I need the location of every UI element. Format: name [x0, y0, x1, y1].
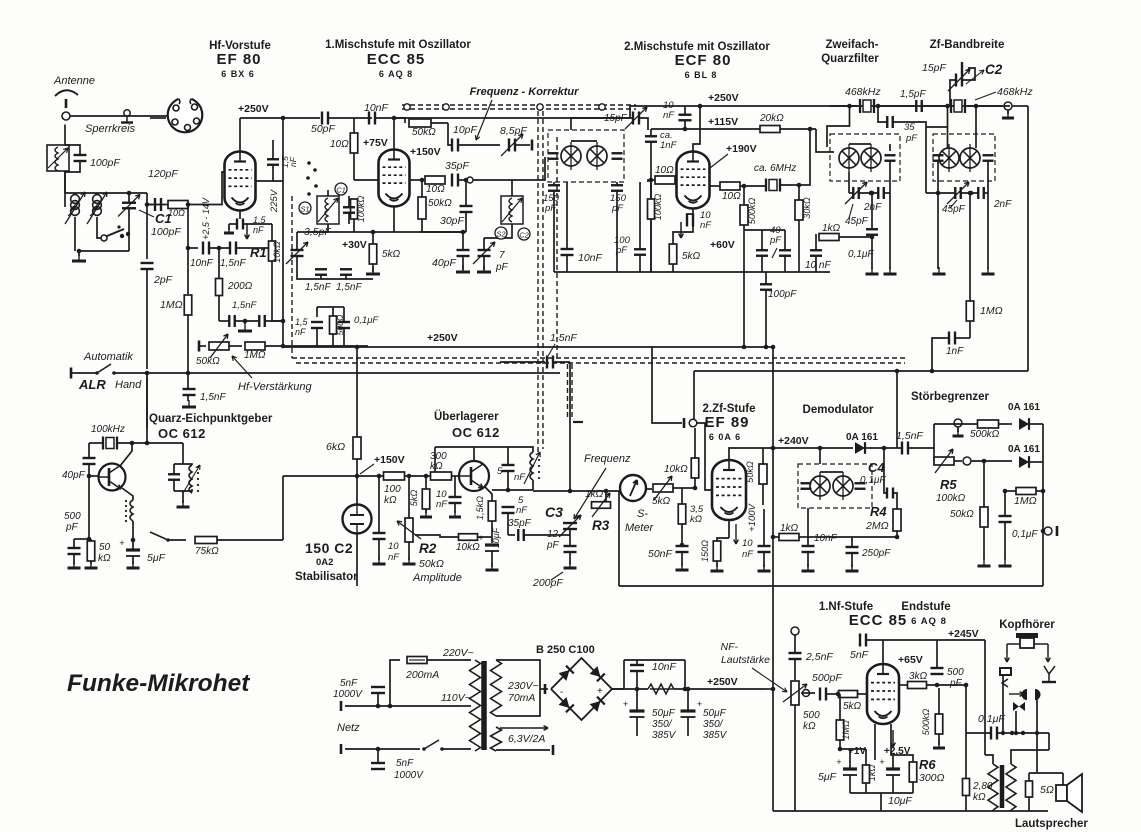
wire 5ohm up — [1028, 773, 1030, 781]
variable capacitor 45pF right — [947, 182, 969, 204]
tube 150C2 stabilizer (V4) — [343, 505, 372, 534]
qf2 coil A — [939, 144, 959, 172]
svg-text:385V: 385V — [652, 730, 677, 741]
shield box bottom edge — [292, 357, 905, 359]
tube ECF80 (V3) — [677, 152, 710, 209]
wire AGC long line2 — [540, 346, 773, 348]
label B 250 C100 — [536, 644, 595, 656]
wire mix out right2 — [473, 157, 545, 180]
resistor 5 Ohm — [1026, 781, 1033, 797]
wire term gnd — [1007, 110, 1009, 114]
wire C3 feed — [569, 362, 571, 491]
capacitor 1,5pF — [916, 100, 922, 112]
capacitor 1,5nF cathode — [230, 242, 236, 255]
capacitor C4 0,1uF — [887, 488, 893, 499]
wire collector up — [120, 443, 132, 466]
wire pot dn — [794, 705, 796, 811]
wire 150pF left — [553, 182, 555, 185]
tube ECC85 triode1 (V2a) — [379, 150, 410, 207]
wire 40pF oc612 top — [88, 443, 90, 458]
node tuned gnd — [77, 249, 82, 254]
terminal heater — [552, 745, 555, 755]
svg-text:S-: S- — [637, 508, 648, 520]
label 100pF mixer b — [615, 245, 628, 256]
svg-text:1MΩ: 1MΩ — [1014, 495, 1037, 507]
label 0,1uF nf — [978, 713, 1005, 725]
label 300k b — [430, 461, 443, 472]
node R4 — [895, 535, 900, 540]
ground R2 — [403, 557, 416, 564]
label 100k ECF — [653, 194, 663, 221]
label 3,5k a — [690, 504, 704, 515]
svg-text:+75V: +75V — [363, 137, 388, 149]
wire C1 top link — [97, 192, 147, 194]
capacitor 0,1uF nf — [991, 727, 997, 740]
capacitor 0,1uF stoer — [999, 516, 1012, 522]
wire screen cap down — [316, 328, 318, 346]
svg-text:30pF: 30pF — [440, 215, 465, 227]
wire qf2 gnd1 — [937, 193, 939, 269]
label +60V — [710, 239, 735, 251]
label Zf-Bandbreite — [930, 39, 1005, 51]
wire 150pF leftb — [553, 191, 555, 272]
wire 01uF screen b — [343, 328, 345, 346]
wire 40pF ecf2 — [761, 256, 763, 272]
label 500pF a — [64, 511, 81, 522]
svg-text:Endstufe: Endstufe — [901, 601, 950, 613]
svg-text:300Ω: 300Ω — [919, 772, 945, 784]
label 100kHz — [91, 424, 125, 435]
label 30k — [802, 197, 812, 219]
wire psu top entry — [345, 705, 460, 707]
wire socket to EF80 plate top — [150, 117, 166, 119]
svg-text:1nF: 1nF — [660, 140, 678, 151]
mechanical linkage lower — [402, 108, 636, 110]
wire left vertical from C1 — [146, 205, 148, 260]
svg-text:75kΩ: 75kΩ — [195, 546, 219, 557]
svg-text:2nF: 2nF — [993, 199, 1012, 210]
ground 50k stoer — [978, 559, 991, 566]
arrow C2 — [966, 70, 984, 84]
node open circle mix — [467, 177, 473, 183]
wire screen net top — [317, 306, 333, 308]
node collector quartz — [130, 441, 135, 446]
capacitor 1,5nF ALR — [183, 389, 196, 395]
svg-text:0A 161: 0A 161 — [846, 432, 878, 443]
label C3 — [545, 504, 563, 520]
wire 50uF b — [687, 689, 689, 711]
wire coupling mid — [500, 361, 545, 363]
variable capacitor 8,5pF — [501, 134, 523, 156]
label 0A2 — [316, 557, 333, 568]
crystal ca 6MHz — [766, 179, 780, 192]
wire crystal right — [781, 129, 810, 185]
svg-text:kΩ: kΩ — [803, 721, 816, 732]
wire 1k ecf right — [839, 236, 872, 238]
wire 5k top — [372, 232, 374, 244]
label 10nF ef89 b — [742, 549, 754, 560]
label EF 89 — [704, 414, 749, 431]
label Kopfhoerer — [999, 619, 1055, 631]
label 10nF bus2 — [364, 102, 389, 114]
label 30pF — [440, 215, 465, 227]
wire cathode gnd stem — [228, 224, 230, 230]
label 15pF IF1 — [604, 113, 628, 124]
label R3 — [592, 518, 610, 533]
wire AGC terminal — [199, 345, 206, 347]
label Endstufe — [901, 601, 950, 613]
wire R4 row — [815, 536, 897, 538]
label 0A161 st1 — [1008, 402, 1040, 413]
label 1k R3 — [585, 489, 604, 500]
wire corner x283 — [282, 476, 284, 540]
terminal 8,5pF — [531, 140, 534, 151]
node psu c — [686, 687, 691, 692]
label 10nF psu — [652, 661, 677, 673]
svg-text:0,1μF: 0,1μF — [354, 315, 379, 326]
svg-text:5kΩ: 5kΩ — [382, 249, 401, 260]
wire cathode row — [188, 247, 198, 249]
wire NF out — [1043, 530, 1044, 532]
svg-text:ECC 85: ECC 85 — [367, 51, 426, 68]
label +240V — [778, 435, 809, 447]
wire 40pF ecf3 — [784, 230, 786, 250]
label 120pF — [148, 168, 178, 180]
resistor 1M AGC — [245, 342, 265, 350]
label R4 — [870, 504, 887, 519]
node NF out — [1041, 529, 1046, 534]
svg-text:500kΩ: 500kΩ — [747, 198, 757, 225]
wire 150pF rightb — [616, 191, 618, 272]
wire 10pF right — [458, 144, 500, 146]
capacitor 1nF agc — [949, 332, 955, 345]
wire 10nF stab b — [378, 539, 380, 560]
resistor 30k — [795, 200, 803, 220]
wire 50k stoer dn — [983, 527, 985, 560]
label 15pF C2 — [922, 62, 947, 74]
wire psu bottom entry — [345, 748, 420, 750]
node 01uF qf — [870, 191, 875, 196]
wire 10k up — [694, 428, 696, 458]
wire 100kHz right — [118, 442, 183, 444]
label 10nF ueb a — [436, 489, 447, 500]
node 5k ueb — [424, 474, 429, 479]
linkage down to osc coil b — [542, 111, 544, 449]
label R1 — [250, 245, 267, 260]
label 7pF b — [495, 262, 509, 273]
wire 5k ueb b — [425, 509, 427, 513]
wire bus jog — [630, 106, 697, 118]
wire ALR lead — [71, 372, 97, 374]
svg-text:200Ω: 200Ω — [227, 281, 253, 292]
svg-text:10Ω: 10Ω — [426, 184, 445, 195]
wire 1M agc up — [969, 193, 971, 301]
wire emitter ueb — [485, 487, 492, 501]
label 150pF left a — [543, 193, 560, 204]
resistor 50k stoer — [980, 507, 988, 527]
wire 245V rail — [883, 639, 985, 641]
label Hf-Vorstufe — [209, 40, 271, 52]
resistor 1M agc right — [966, 301, 974, 321]
capacitor 2pF — [141, 263, 154, 269]
wire 50k stoer — [983, 461, 985, 507]
wire 50nF down — [681, 552, 683, 566]
arrow EF89 cathode — [734, 524, 739, 544]
svg-text:3kΩ: 3kΩ — [909, 671, 928, 682]
svg-text:2MΩ: 2MΩ — [865, 520, 889, 532]
wire bias conn2 — [849, 749, 851, 769]
svg-text:+: + — [478, 533, 483, 543]
wire qf row right b — [961, 192, 978, 194]
node 10nF stab — [377, 474, 382, 479]
label 10nF ecf b — [700, 220, 712, 231]
node 240V — [771, 446, 776, 451]
svg-text:1,5nF: 1,5nF — [232, 300, 257, 311]
wire 1,5nF anode top — [272, 140, 274, 159]
svg-text:385V: 385V — [703, 730, 728, 741]
label 10nF ecf a — [700, 210, 711, 221]
resistor R1 10k — [269, 241, 276, 261]
resistor 200 Ohm — [216, 279, 223, 296]
wire ueb coil top — [530, 447, 533, 452]
ground 10nF demod — [802, 564, 815, 571]
wire 200pF down — [569, 552, 571, 564]
capacitor 10nF ueb — [449, 497, 462, 503]
wire bias row2 — [235, 320, 259, 322]
label 2nF left — [863, 202, 882, 213]
svg-text:5Ω: 5Ω — [1040, 784, 1054, 796]
label 50k HF — [196, 356, 220, 367]
wire pot to 1M — [229, 345, 242, 347]
label 1,5nF anode — [280, 156, 290, 168]
wire crystal2 out — [967, 105, 1002, 107]
label 1k nf — [867, 765, 877, 782]
linkage coupler 3 — [537, 104, 543, 110]
node C1 top — [127, 191, 132, 196]
capacitor 10uF nf — [879, 757, 900, 775]
resistor 75k — [195, 537, 217, 544]
svg-text:ECC 85: ECC 85 — [849, 612, 908, 629]
svg-text:12: 12 — [547, 529, 559, 540]
label 100k stab b — [384, 495, 397, 506]
wire emitter to coil — [122, 488, 133, 500]
label C1 100pF — [151, 226, 181, 238]
svg-text:Funke-Mikrohet: Funke-Mikrohet — [67, 670, 250, 697]
wire 1k demod l — [773, 536, 779, 538]
wire EF80 anode out — [255, 180, 283, 182]
wire IF1 trim — [571, 118, 632, 130]
svg-text:OC 612: OC 612 — [452, 425, 500, 440]
label 10nF ef89 a — [742, 538, 753, 549]
svg-text:15pF: 15pF — [922, 62, 947, 74]
svg-text:1kΩ: 1kΩ — [780, 523, 799, 534]
wire 3k l — [899, 684, 908, 686]
wire 35pF ueb left — [508, 534, 515, 536]
wire grid node — [147, 193, 188, 205]
svg-text:5μF: 5μF — [147, 552, 166, 564]
svg-text:Automatik: Automatik — [83, 351, 133, 363]
svg-text:10 nF: 10 nF — [805, 260, 831, 271]
svg-text:nF: nF — [663, 110, 675, 121]
wire 50k grid2 down — [422, 219, 466, 232]
wire bridge in — [540, 688, 548, 690]
capacitor qf2 left — [933, 155, 944, 161]
variable capacitor C2 15pF — [948, 69, 970, 91]
label +245V — [948, 628, 979, 640]
wire 1M stoer l — [1005, 490, 1016, 492]
label S-Meter a — [637, 508, 648, 520]
node 10k meter — [693, 486, 698, 491]
ground ueb — [486, 563, 499, 570]
wire 200ohm bottom — [218, 296, 220, 321]
wire qf row left a — [849, 192, 853, 194]
label OC 612 quarz — [158, 426, 206, 441]
svg-text:40pF: 40pF — [62, 470, 86, 481]
label 150 C2 — [305, 540, 353, 556]
wire nf gnd row — [850, 792, 913, 794]
headphone jack socket — [1016, 633, 1038, 648]
IF1 secondary coil — [587, 142, 607, 170]
loudspeaker — [1056, 774, 1082, 812]
node demod out — [882, 446, 887, 451]
wire 245V dn — [984, 640, 986, 755]
wire coil to node — [132, 521, 134, 540]
wire speaker feed — [1042, 580, 1044, 586]
label +1V — [848, 746, 866, 757]
capacitor 2,5nF — [789, 653, 802, 659]
wire ECC85 cathode — [393, 207, 395, 233]
svg-text:10Ω: 10Ω — [168, 208, 185, 218]
label 0A161 demod — [846, 432, 878, 443]
wire 300k right — [452, 475, 460, 477]
label 5nF PSU b — [333, 689, 363, 700]
label 50uF b2 — [703, 719, 724, 730]
wire stoer t1 — [957, 427, 959, 432]
svg-text:Zf-Bandbreite: Zf-Bandbreite — [930, 39, 1005, 51]
wire 500k down — [743, 225, 745, 347]
wire 10nF ueb b — [454, 503, 456, 513]
wire cath dn2 — [912, 782, 914, 793]
label 150 Ohm — [700, 540, 710, 562]
svg-text:Quarz-Eichpunktgeber: Quarz-Eichpunktgeber — [149, 413, 273, 425]
svg-text:1,5nF: 1,5nF — [220, 258, 246, 269]
svg-text:500pF: 500pF — [812, 672, 842, 684]
svg-text:6,3V/2A: 6,3V/2A — [508, 733, 545, 745]
svg-text:Störbegrenzer: Störbegrenzer — [911, 391, 989, 403]
label R5 — [940, 477, 957, 492]
label +75V — [363, 137, 388, 149]
wire 240V rail — [773, 447, 853, 449]
wire qf1 feed b — [816, 129, 834, 152]
node fuse — [388, 704, 393, 709]
wire 100k ecf down — [650, 219, 652, 272]
svg-text:Überlagerer: Überlagerer — [434, 410, 499, 423]
wire 10nF b+ down — [684, 121, 686, 129]
svg-text:R3: R3 — [592, 518, 610, 533]
label 0,1uF stoer — [1012, 529, 1038, 540]
wire frame left nf — [772, 586, 774, 811]
wire phone jack left down — [1002, 675, 1004, 733]
resistor 1M stoer — [1016, 488, 1036, 495]
label 45pF right — [942, 204, 966, 215]
resistor 10 Ohm grid — [168, 201, 188, 209]
tube socket top view — [168, 97, 203, 132]
svg-text:10Ω: 10Ω — [330, 139, 349, 150]
wire C1 bottom — [128, 209, 130, 252]
wire screen top row — [333, 306, 344, 308]
wire EF80 anode top — [239, 118, 241, 152]
node stoer2 — [982, 459, 987, 464]
svg-text:5nF: 5nF — [340, 678, 358, 689]
resistor 100k ECC85 — [351, 199, 358, 219]
capacitor ca1nF — [645, 136, 657, 142]
circled C1b — [335, 183, 347, 195]
coil emitter oc612 — [125, 500, 133, 522]
svg-text:nF: nF — [436, 499, 448, 510]
node nf bias — [838, 747, 843, 752]
label Amplitude — [412, 572, 462, 584]
svg-text:Hf-Verstärkung: Hf-Verstärkung — [238, 381, 312, 393]
wire 115V row — [651, 128, 816, 130]
svg-text:10: 10 — [742, 538, 753, 549]
svg-text:R2: R2 — [419, 541, 437, 556]
label R4 2M — [865, 520, 889, 532]
wire qf1 top link — [849, 143, 871, 145]
ground tank — [177, 500, 190, 507]
IF1 primary coil — [561, 142, 581, 170]
svg-text:1MΩ: 1MΩ — [841, 720, 851, 740]
wire x147 to sw region — [146, 373, 148, 443]
svg-text:+: + — [697, 699, 702, 709]
heater arrow — [500, 726, 548, 731]
wire 500k nf up — [938, 688, 940, 714]
label NF-Lautstaerke b — [721, 654, 770, 666]
label 2,80k b — [973, 792, 986, 803]
wire 5nF ueb1 b — [507, 471, 509, 490]
label 2pF — [153, 274, 173, 286]
capacitor 0,1uF screen — [338, 322, 350, 328]
terminal NF out bar — [1056, 526, 1059, 536]
capacitor 1,5nF stoer — [902, 442, 908, 455]
ground bias network — [238, 324, 252, 331]
wire 3k r — [927, 684, 966, 686]
headphone wire right — [1034, 644, 1050, 662]
node 3k out — [935, 683, 940, 688]
label +65V — [898, 654, 923, 666]
wire row mid — [209, 247, 230, 249]
wire 7pF bot — [483, 256, 485, 270]
svg-text:150Ω: 150Ω — [700, 540, 710, 562]
wire bias row3 — [265, 320, 283, 322]
node 30pF — [464, 178, 469, 183]
svg-text:C3: C3 — [545, 504, 563, 520]
label 500k ecf — [747, 198, 757, 225]
wire tank cap — [173, 464, 175, 474]
label +2,5-14V — [201, 197, 211, 240]
label 6k — [326, 441, 345, 453]
node grid line x897 — [895, 369, 900, 374]
wire 35pF right — [893, 122, 926, 193]
wire down to quartz section — [146, 377, 148, 428]
node 1k demod — [771, 535, 776, 540]
wire otp bottom — [992, 810, 994, 811]
label 2,80k a — [972, 781, 993, 792]
label OC 612 ueb — [452, 425, 500, 440]
label Ueberlagerer — [434, 410, 499, 423]
wire ueb out row — [492, 489, 533, 491]
resistor 50k grid2 — [418, 197, 426, 219]
label +150V rail — [374, 454, 405, 466]
